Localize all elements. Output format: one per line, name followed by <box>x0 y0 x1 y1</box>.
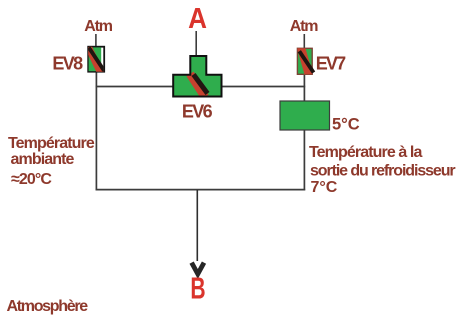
svg-text:≈20°C: ≈20°C <box>11 171 52 188</box>
label Température à la sortie du refroidisseur 7°C <box>309 144 455 196</box>
wire right vertical (EV7 down through cooler to bottom line) <box>303 75 305 191</box>
wire center outlet down to B <box>196 190 198 261</box>
label Température ambiante ≈20°C <box>8 135 95 188</box>
arrowhead to B <box>192 263 204 274</box>
svg-text:B: B <box>190 270 205 305</box>
svg-text:Atmosphère: Atmosphère <box>7 298 89 315</box>
svg-text:5°C: 5°C <box>332 116 360 134</box>
label Atm (right) <box>290 18 318 35</box>
label EV8 <box>52 54 83 74</box>
label 5°C <box>332 116 360 134</box>
svg-text:ambiante: ambiante <box>11 151 75 168</box>
svg-text:Atm: Atm <box>84 18 112 35</box>
svg-text:A: A <box>188 2 207 35</box>
label Atm (left) <box>84 18 112 35</box>
cooler (refroidisseur) <box>280 101 330 130</box>
svg-text:Atm: Atm <box>290 18 318 35</box>
wire Atm to EV7 <box>303 34 305 49</box>
valve EV6 (T-shaped) <box>173 56 221 97</box>
wire bottom line <box>96 189 306 191</box>
svg-text:Température: Température <box>8 135 95 152</box>
node A <box>188 2 207 35</box>
svg-text:Température à la: Température à la <box>309 144 422 161</box>
valve EV7 <box>297 47 313 76</box>
label EV7 <box>316 54 346 74</box>
svg-text:7°C: 7°C <box>311 179 338 196</box>
svg-text:EV8: EV8 <box>52 54 83 74</box>
svg-text:EV7: EV7 <box>316 54 346 74</box>
label Atmosphère <box>7 298 89 315</box>
node B <box>190 270 205 305</box>
label EV6 <box>182 102 213 122</box>
valve EV8 <box>88 47 104 73</box>
wire Atm to EV8 <box>95 34 97 47</box>
svg-text:EV6: EV6 <box>182 102 213 122</box>
wire left vertical (EV8 down to bottom line) <box>95 73 97 191</box>
wire horizontal main pipe <box>96 86 306 88</box>
wire from A down to EV6 <box>195 31 197 56</box>
svg-text:sortie du refroidisseur: sortie du refroidisseur <box>310 163 455 180</box>
